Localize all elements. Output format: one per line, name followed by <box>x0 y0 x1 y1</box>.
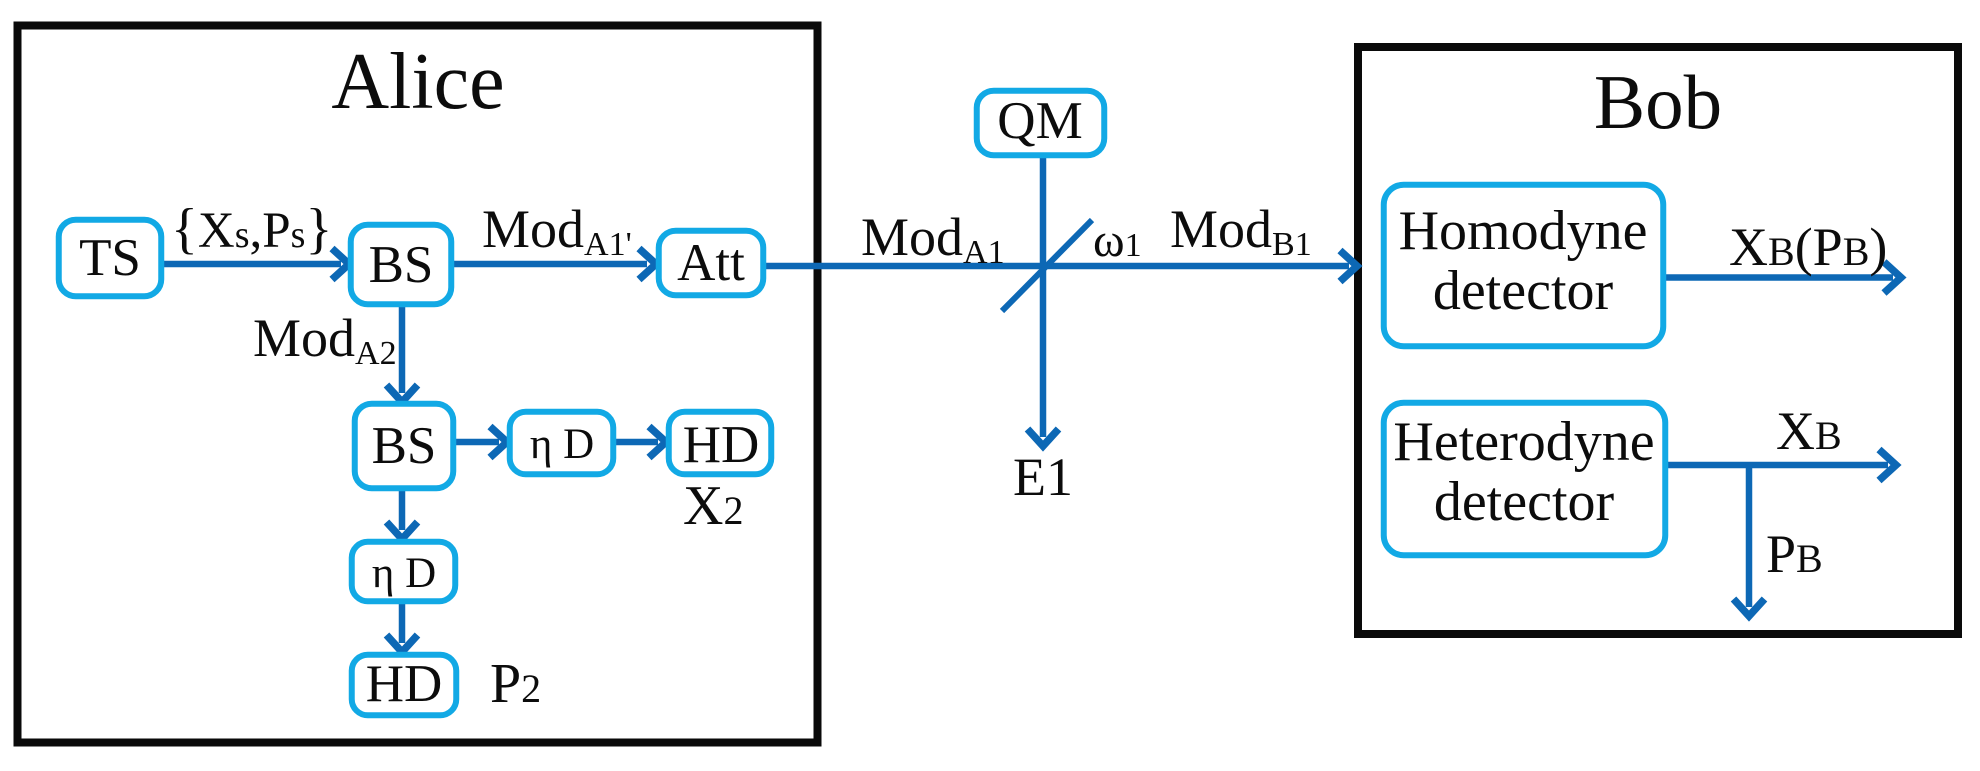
svg-text:detector: detector <box>1434 471 1615 533</box>
wire TS to BS1 <box>163 261 341 268</box>
svg-text:TS: TS <box>79 229 141 287</box>
svg-text:{Xs,Ps}: {Xs,Ps} <box>171 198 332 260</box>
wire BS2 down to etaD2 <box>399 490 406 530</box>
svg-text:HD: HD <box>366 655 443 713</box>
wire BS1 down to BS2 <box>399 306 406 393</box>
wire BS1 to Att <box>453 261 647 268</box>
box etaD1 <box>510 412 614 475</box>
box Homodyne detector <box>1384 185 1664 347</box>
svg-text:Alice: Alice <box>331 38 504 126</box>
svg-text:Homodyne: Homodyne <box>1399 200 1648 262</box>
svg-text:BS: BS <box>369 236 434 294</box>
box etaD2 <box>352 542 456 602</box>
beamsplitter diagonal <box>1002 220 1092 311</box>
box QM <box>977 91 1105 156</box>
box Heterodyne detector <box>1384 403 1666 556</box>
wire BS2 to etaD1 <box>455 439 499 446</box>
box TS <box>59 220 162 297</box>
Bob enclosure box <box>1358 47 1958 634</box>
svg-text:BS: BS <box>372 417 437 475</box>
svg-text:Heterodyne: Heterodyne <box>1393 411 1654 473</box>
svg-text:detector: detector <box>1433 260 1614 322</box>
svg-text:QM: QM <box>997 92 1082 150</box>
box HD1 <box>669 412 772 475</box>
wire Heterodyne output XB <box>1666 462 1888 469</box>
svg-text:η D: η D <box>530 421 594 468</box>
svg-text:η D: η D <box>372 550 436 597</box>
wire branch down PB <box>1746 465 1753 607</box>
wire Att to Bob (through beamsplitter) <box>765 263 1349 270</box>
svg-text:Bob: Bob <box>1594 59 1722 145</box>
wire Homodyne output <box>1665 274 1893 281</box>
svg-text:Att: Att <box>677 234 745 292</box>
wire etaD1 to HD1 <box>615 439 658 446</box>
box Att <box>659 231 764 296</box>
Alice enclosure box <box>18 26 818 743</box>
svg-text:HD: HD <box>683 416 760 474</box>
wire QM down to E1 <box>1040 157 1047 437</box>
wire etaD2 down to HD2 <box>399 603 406 643</box>
box BS2 <box>355 404 454 489</box>
svg-text:E1: E1 <box>1013 447 1073 507</box>
box HD2 <box>352 655 457 716</box>
box BS1 <box>351 225 452 305</box>
